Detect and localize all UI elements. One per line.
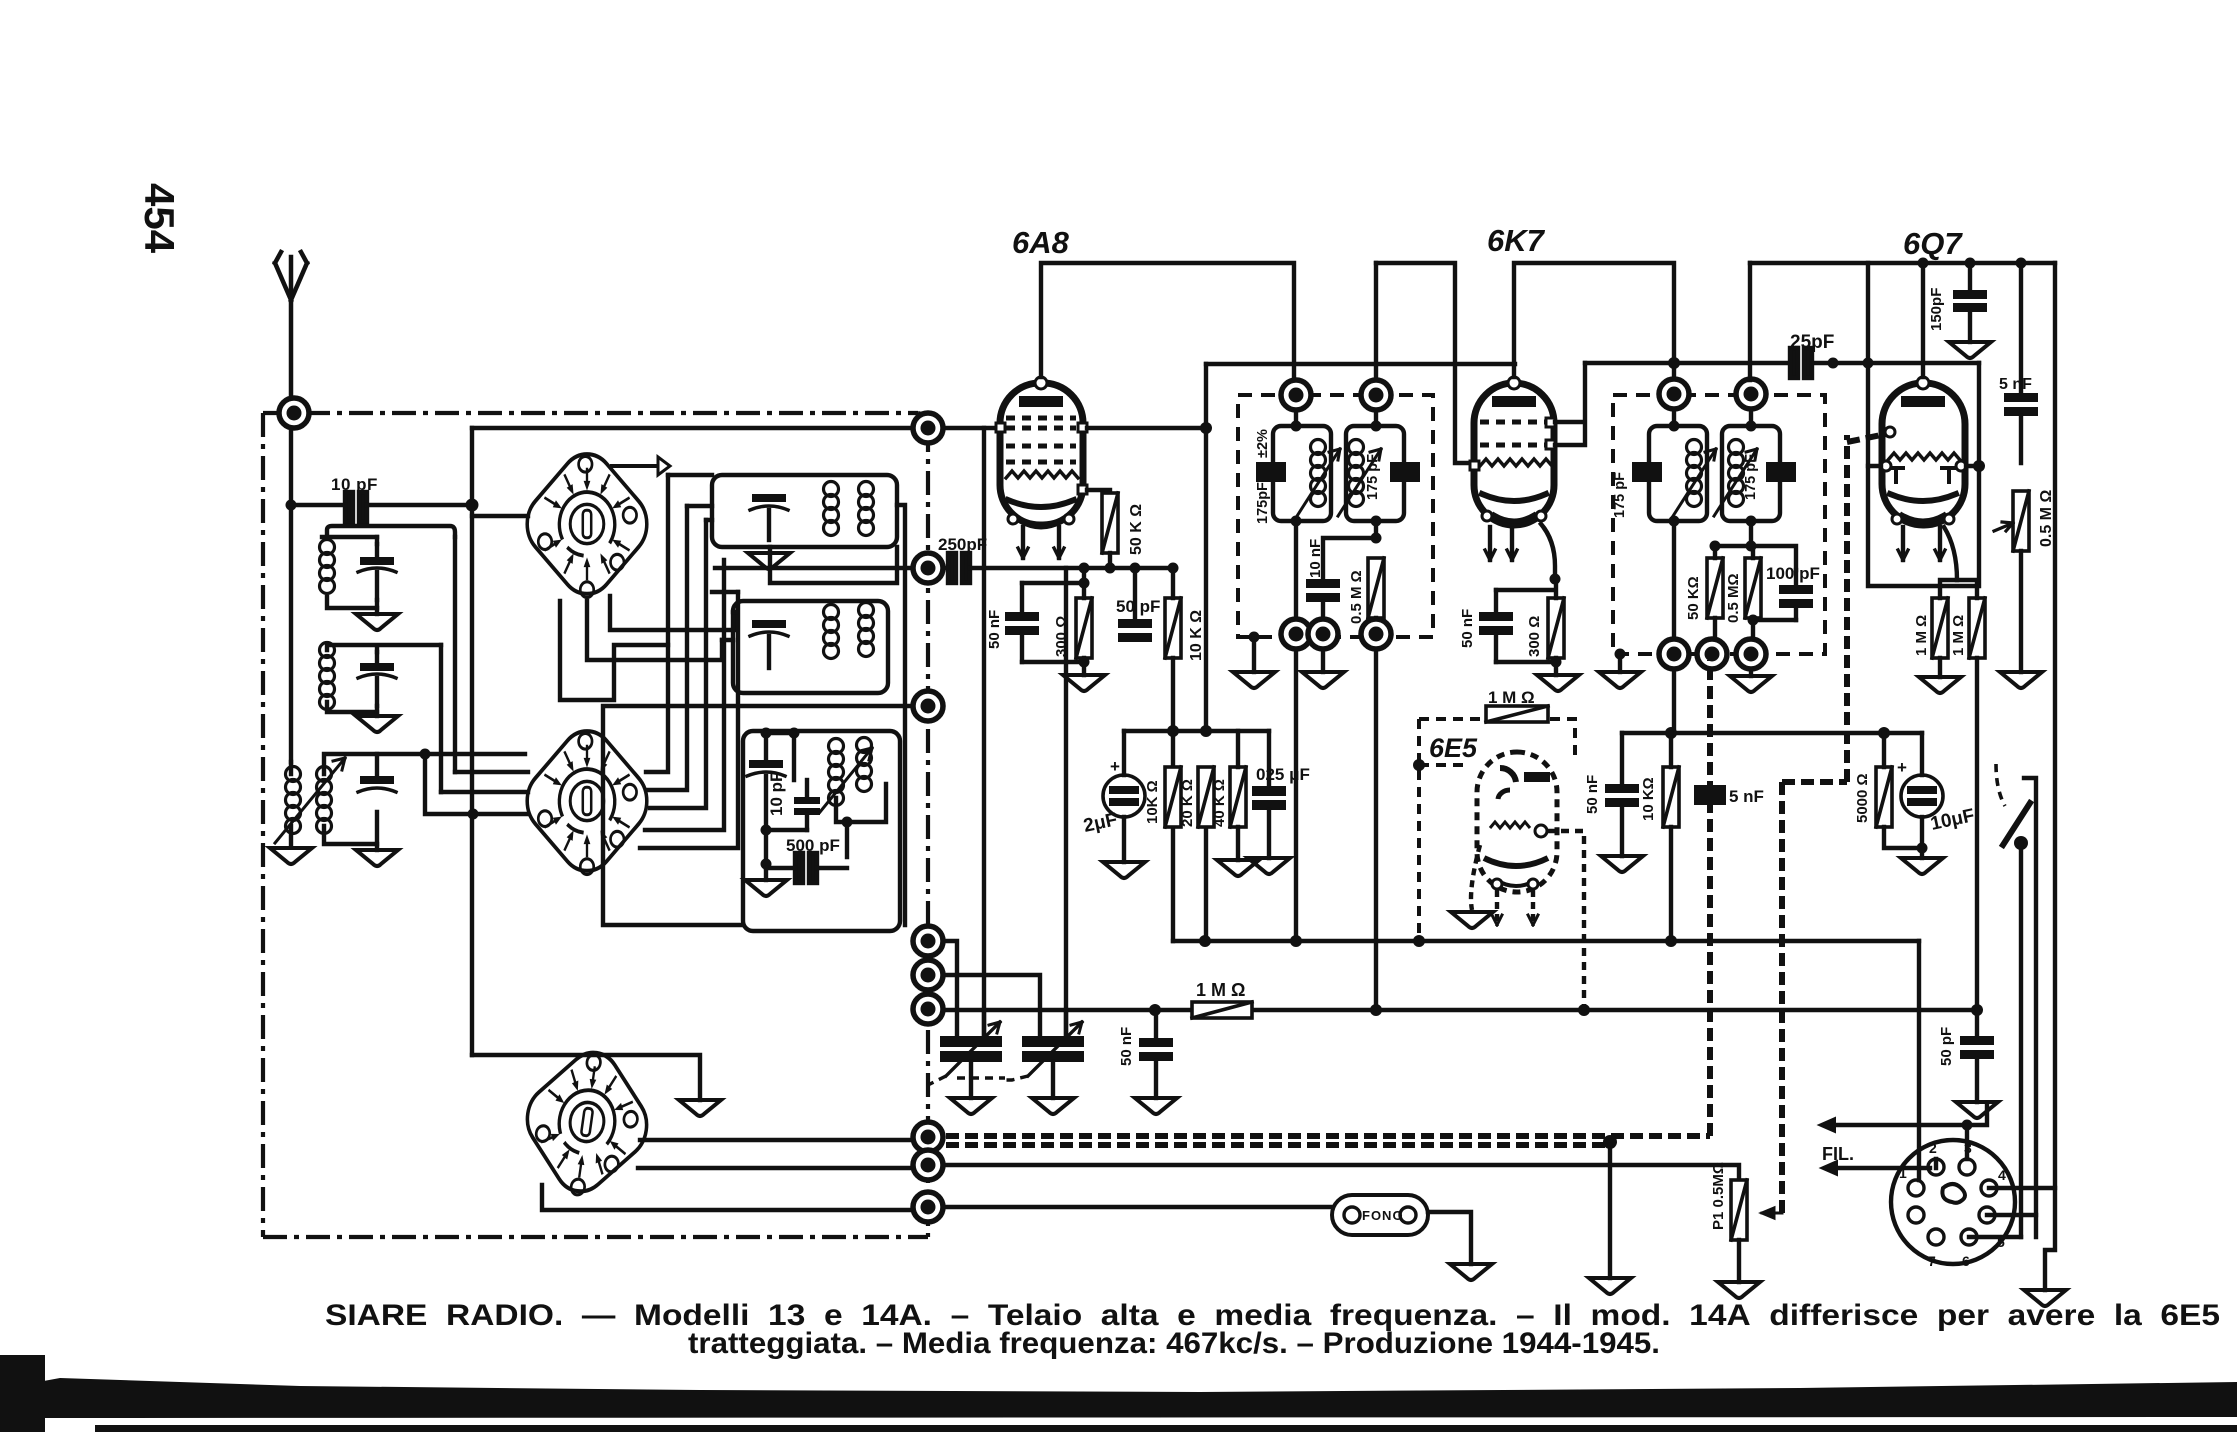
svg-text:025 μF: 025 μF xyxy=(1256,765,1310,784)
trimmer C4 xyxy=(750,494,788,540)
svg-text:25pF: 25pF xyxy=(1790,332,1834,353)
plate supply line y=263 right xyxy=(1750,261,2055,265)
T1 adjust arrow xyxy=(275,758,345,843)
wire osc box right riser xyxy=(897,505,905,925)
tube 6K7 xyxy=(1470,377,1555,560)
svg-text:1 M Ω: 1 M Ω xyxy=(1488,688,1535,707)
svg-text:5 nF: 5 nF xyxy=(1729,787,1764,806)
ground under IF2 right xyxy=(1749,669,1753,676)
wire 10K 6E5 xyxy=(1669,733,1673,941)
ground under C2 xyxy=(375,706,379,716)
wire 250pF to cathode bus xyxy=(944,566,1173,570)
wires IF2 bottom xyxy=(1715,546,1796,654)
wire osc top bus xyxy=(712,592,738,640)
cap 10nF xyxy=(1306,579,1340,634)
antenna terminal xyxy=(279,398,309,428)
IF1 primary cap 175pF xyxy=(1256,462,1286,482)
IF1 tuning arrows xyxy=(1297,449,1381,516)
wire 0.5M to AVC xyxy=(1374,618,1378,1010)
ground 150pF xyxy=(1949,342,1991,358)
wire bundle vertical turns into osc boxes xyxy=(668,475,712,520)
arrow from wafer S1 xyxy=(612,464,658,468)
wires 5000/10uF bottom xyxy=(1884,733,1922,848)
IF1 connections xyxy=(1296,410,1376,634)
long vertical from plate line to socket xyxy=(2053,263,2057,1188)
svg-text:0.5 M Ω: 0.5 M Ω xyxy=(1348,570,1365,624)
wire 50K bottom xyxy=(1108,553,1112,568)
ground 10uF xyxy=(1920,848,1924,858)
resistor 300ohm 6K7 xyxy=(1548,598,1564,658)
heavy dashed shielded bus xyxy=(946,434,1886,1213)
wire 6A8 G2 to 50K xyxy=(1087,490,1110,493)
cap 5nF on shield line xyxy=(1694,785,1726,805)
wire screen line y=363 right xyxy=(1585,361,1979,365)
resistor 10K first xyxy=(1165,598,1181,658)
ground 6K7 cathode xyxy=(1537,675,1579,691)
svg-text:10 nF: 10 nF xyxy=(1307,539,1324,578)
AVC bus y=1010 xyxy=(943,1008,1977,1012)
svg-text:50 pF: 50 pF xyxy=(1938,1027,1955,1066)
IF1 transformer dashed can xyxy=(1238,395,1433,637)
IF2 transformer dashed can xyxy=(1613,395,1825,654)
svg-text:10 pF: 10 pF xyxy=(331,475,378,494)
svg-text:6A8: 6A8 xyxy=(1012,225,1070,260)
svg-text:175 pF: 175 pF xyxy=(1612,472,1628,518)
resistor 1M AVC horizontal xyxy=(1192,1002,1252,1018)
trimmer C5 xyxy=(750,620,788,668)
trimmer C2 xyxy=(358,652,396,706)
svg-text:±2%: ±2% xyxy=(1255,429,1271,458)
svg-text:50 pF: 50 pF xyxy=(1116,597,1160,616)
wire P1 feed xyxy=(943,1165,1739,1180)
coil L7 xyxy=(829,739,844,806)
dashed link padder2 xyxy=(1005,1076,1028,1080)
IF2 secondary coil xyxy=(1729,440,1744,507)
svg-text:175pF: 175pF xyxy=(1255,482,1271,524)
6E5 dashed box xyxy=(1419,719,1575,941)
IF1 secondary coil xyxy=(1349,440,1364,507)
IF2 tuning arrows xyxy=(1673,449,1757,516)
10pF coupling cap (series) xyxy=(345,492,367,522)
trimmer C1 xyxy=(358,544,396,600)
tube 6A8 xyxy=(996,377,1087,558)
svg-text:150pF: 150pF xyxy=(1928,288,1945,331)
svg-text:6E5: 6E5 xyxy=(1429,733,1478,763)
wire 6Q7 diode left pin xyxy=(1868,464,1881,468)
coil L1 antenna xyxy=(320,540,335,594)
FONO jack xyxy=(1332,1195,1428,1235)
svg-text:1 M Ω: 1 M Ω xyxy=(1196,980,1245,1000)
ground 6A8 cathode xyxy=(1063,675,1105,691)
resistor 300ohm 6A8 xyxy=(1076,598,1092,658)
wire top over wafer3 with ground xyxy=(472,1055,700,1100)
power switch xyxy=(1996,764,2036,1237)
IF2 terminal 2 xyxy=(1736,379,1766,409)
P1 wiper arrow xyxy=(1762,1208,1782,1218)
chassis terminals column xyxy=(913,413,943,443)
potentiometer 0.5M xyxy=(2013,491,2029,551)
wire riser x=455 from L1 to wafer2 xyxy=(453,537,457,772)
IF1 bottom terminals xyxy=(1281,619,1311,649)
cap 50nF 6E5 xyxy=(1605,733,1639,856)
svg-text:50 KΩ: 50 KΩ xyxy=(1685,576,1702,620)
IF1 terminal 2 xyxy=(1361,380,1391,410)
wire FONO to ground xyxy=(1428,1212,1471,1264)
IF2 secondary cap 175pF xyxy=(1766,462,1796,482)
wire switch line to socket xyxy=(2019,1215,2023,1237)
IF1 terminal 1 xyxy=(1281,380,1311,410)
svg-text:tratteggiata. – Media frequenz: tratteggiata. – Media frequenza: 467kc/s… xyxy=(688,1327,1660,1360)
svg-text:FONO: FONO xyxy=(1362,1208,1404,1223)
ground padder1 xyxy=(950,1098,992,1114)
wafer switch S1 xyxy=(516,441,659,607)
IF2 primary cap 175pF xyxy=(1632,462,1662,482)
svg-text:10 K Ω: 10 K Ω xyxy=(1188,610,1205,661)
tuning gang wire B xyxy=(1064,568,1068,1036)
ground osc box1 xyxy=(748,553,790,569)
resistor 1M a xyxy=(1932,598,1948,658)
potentiometer P1 xyxy=(1731,1180,1747,1240)
wire 10K chain x=1173 xyxy=(1171,568,1175,941)
wire L1 top xyxy=(327,526,455,608)
wire 6Q7 plate riser xyxy=(1921,263,1925,377)
svg-text:+: + xyxy=(1897,758,1907,777)
resistor 50K IF2 xyxy=(1707,558,1723,618)
socket wires xyxy=(1919,941,2055,1290)
cap 50nF 6A8 cathode xyxy=(1005,583,1039,662)
wire detector box around 6Q7 xyxy=(1868,263,1979,586)
coil L4 xyxy=(859,482,874,536)
wire 6K7 plate to top xyxy=(1514,263,1674,392)
wire IF1 sec top to 6K7 grid xyxy=(1376,263,1474,463)
cap 150pF xyxy=(1953,263,1987,342)
wire 6K7 cathode down xyxy=(1541,524,1555,579)
wire L2 top xyxy=(327,645,441,652)
svg-text:1 M Ω: 1 M Ω xyxy=(1913,615,1930,656)
ground under T1 primary xyxy=(270,848,312,864)
wire from wafer2 down xyxy=(560,596,736,700)
antenna xyxy=(275,252,307,413)
wire grid bus y=428 xyxy=(472,426,998,430)
wire riser x=441 from L2 to wafer2 xyxy=(439,645,443,792)
svg-text:50 K Ω: 50 K Ω xyxy=(1128,504,1145,555)
wire wafer3 to terminal y=1165 xyxy=(638,1166,928,1170)
wire AVC riser x=1206 xyxy=(1204,364,1208,941)
trimmer C6 xyxy=(747,733,785,864)
cap 100pF xyxy=(1779,570,1813,620)
tube 6Q7 xyxy=(1881,377,1966,560)
svg-text:100 pF: 100 pF xyxy=(1766,564,1820,583)
svg-text:300 Ω: 300 Ω xyxy=(1526,616,1543,657)
cap 5nF xyxy=(2004,263,2038,463)
coil L3 xyxy=(824,482,839,536)
cap 50pF xyxy=(1118,568,1152,642)
svg-text:10 pF: 10 pF xyxy=(767,772,786,816)
svg-text:7: 7 xyxy=(1928,1253,1936,1269)
wire y=733 row xyxy=(1622,731,1922,735)
svg-text:250pF: 250pF xyxy=(938,535,987,554)
antenna transformer T1 primary xyxy=(286,767,301,834)
svg-text:50 nF: 50 nF xyxy=(1584,775,1601,814)
wire IF1 pri riser to bus xyxy=(1294,649,1298,941)
wire antenna down xyxy=(289,428,293,762)
electrolytic 2uF xyxy=(1103,731,1145,862)
resistor 0.5M IF2 xyxy=(1745,558,1761,618)
resistor bank 40K xyxy=(1230,767,1246,827)
resistor 10K 6E5 xyxy=(1663,767,1679,827)
ground bottom right xyxy=(2024,1290,2066,1306)
wire from terminal 706 xyxy=(603,706,928,925)
resistor 0.5M IF1 xyxy=(1368,558,1384,618)
padder trimmer 2 xyxy=(943,975,1084,1098)
wafer switch S3 xyxy=(505,1030,669,1215)
FIL arrow 1 xyxy=(1834,1105,1987,1125)
wire 6K7 screen pins loop xyxy=(1555,363,1585,445)
bus wire y=941 xyxy=(1173,939,1919,943)
svg-text:6: 6 xyxy=(1962,1253,1970,1269)
riser wire x=472 xyxy=(470,428,474,1055)
svg-text:4: 4 xyxy=(1998,1167,2006,1183)
wire 6Q7 cathode to 1M pair xyxy=(1944,527,1957,580)
resistor 1M 6E5 xyxy=(1486,706,1548,722)
wire 1M b down xyxy=(1975,658,1979,1010)
wire stubs into wafer1 xyxy=(472,514,528,518)
wire wafer3 bottom to terminal y=1207 xyxy=(542,1185,928,1210)
wire 6A8 grid pin right to AVC riser xyxy=(1087,426,1206,430)
svg-text:0.5 MΩ: 0.5 MΩ xyxy=(1725,573,1742,623)
IF2 connections xyxy=(1674,409,1751,654)
svg-text:5 nF: 5 nF xyxy=(1999,376,2032,393)
IF2 shield ground xyxy=(1615,649,1626,660)
svg-text:5000 Ω: 5000 Ω xyxy=(1854,773,1871,823)
cap 50pF xyxy=(1960,1010,1994,1102)
node junction xyxy=(286,500,297,511)
oscillator box 3 xyxy=(743,728,900,932)
IF2 bottom terminals xyxy=(1659,639,1689,669)
ground 50nF 6E5 xyxy=(1601,856,1643,872)
electrolytic 10uF xyxy=(1897,733,1943,848)
resistor 1M b xyxy=(1969,598,1985,658)
coil L2 xyxy=(320,643,335,710)
wire screen line y=364 left xyxy=(1206,362,1515,366)
svg-text:6Q7: 6Q7 xyxy=(1903,226,1963,261)
svg-text:2: 2 xyxy=(1929,1140,1937,1156)
ground padder2 xyxy=(1032,1098,1074,1114)
node 6A8 avc xyxy=(1200,422,1212,434)
wires 1M pair top xyxy=(1940,580,1977,677)
IF1 primary box xyxy=(1273,426,1331,521)
resistor 5000 ohm xyxy=(1876,767,1892,827)
oscillator box 2 xyxy=(733,601,888,693)
ground 50pF xyxy=(1956,1102,1998,1118)
trimmer C3 xyxy=(358,754,396,792)
IF1 secondary box xyxy=(1346,426,1404,521)
tube socket xyxy=(1891,1140,2015,1269)
svg-text:40 K Ω: 40 K Ω xyxy=(1211,779,1228,827)
cap 50nF 6K7 cathode xyxy=(1479,590,1513,662)
wire IF2 pri riser down to y733 xyxy=(1672,669,1676,733)
svg-text:10K Ω: 10K Ω xyxy=(1144,780,1161,824)
wire 40K to ground xyxy=(1236,731,1240,860)
FIL arrow 2 xyxy=(1836,1166,1930,1170)
svg-text:P1 0.5MΩ: P1 0.5MΩ xyxy=(1710,1162,1727,1230)
dashed link padder1 to chassis xyxy=(957,1076,1005,1079)
svg-text:50 nF: 50 nF xyxy=(1118,1027,1135,1066)
detector cap 50nF xyxy=(1139,1010,1173,1098)
wire antenna to 10pF to riser xyxy=(291,503,345,507)
resistor bank 20K xyxy=(1198,767,1214,827)
coil L6 xyxy=(859,603,874,657)
svg-text:50 nF: 50 nF xyxy=(986,610,1003,649)
wire bundle right of wafer2 to oscillator coils xyxy=(640,475,738,848)
wire T1 connections xyxy=(291,754,525,846)
coil L8 xyxy=(857,738,872,792)
wire 6A8 plate to top xyxy=(1041,263,1294,385)
ground under C3 xyxy=(375,844,379,850)
6E5 grid dashed to AVC xyxy=(1547,831,1584,1010)
svg-text:6K7: 6K7 xyxy=(1487,223,1546,258)
ground det cap xyxy=(1135,1098,1177,1114)
svg-text:1: 1 xyxy=(1899,1165,1907,1181)
wire wafer3 to terminal y=1137 xyxy=(640,1138,928,1142)
svg-text:300 Ω: 300 Ω xyxy=(1053,616,1070,657)
antenna transformer T1 secondary xyxy=(317,767,332,834)
6E5 pins xyxy=(1471,845,1533,925)
wire bundle left of wafer2 xyxy=(425,754,528,814)
ground osc box3 xyxy=(764,868,768,880)
250pF series cap xyxy=(948,553,970,583)
wire FONO from terminal xyxy=(943,1205,1332,1209)
cap 25pF series xyxy=(1790,348,1812,378)
tube 6E5 dashed xyxy=(1477,752,1557,892)
IF2 primary box xyxy=(1649,426,1707,521)
wires inside osc3 xyxy=(766,733,886,857)
svg-text:454: 454 xyxy=(136,183,183,254)
ground from shielded bus xyxy=(1608,1145,1612,1278)
ground under IF1 middle xyxy=(1321,649,1325,672)
pot wiper arrow xyxy=(1994,522,2013,531)
wires 6K7 cathode RC xyxy=(1496,579,1556,675)
padder trimmer 1 xyxy=(940,941,1002,1098)
ground under C1 xyxy=(375,600,379,614)
resistor bank 10K xyxy=(1165,767,1181,827)
bottom scan black band xyxy=(0,1378,2237,1418)
svg-text:20 K Ω: 20 K Ω xyxy=(1179,779,1196,827)
ground 0.25uF xyxy=(1248,858,1290,874)
resistor 50K xyxy=(1102,493,1118,553)
IF2 secondary box xyxy=(1722,426,1780,521)
svg-text:0.5 M Ω: 0.5 M Ω xyxy=(2038,490,2055,547)
cap 0.25uF xyxy=(1252,731,1286,858)
wire avc filter top y=731 xyxy=(1124,729,1269,733)
ground 1M a xyxy=(1919,677,1961,693)
IF1 primary coil xyxy=(1311,440,1326,507)
svg-text:1 M Ω: 1 M Ω xyxy=(1950,615,1967,656)
IF2 primary coil xyxy=(1687,440,1702,507)
IF1 secondary cap 175pF xyxy=(1390,462,1420,482)
wire P1 bottom to ground xyxy=(1737,1240,1741,1282)
tuning gang wire A xyxy=(982,428,986,1036)
svg-text:50 nF: 50 nF xyxy=(1459,609,1476,648)
IF1 shield ground xyxy=(1249,632,1260,643)
chassis dash-dot boundary xyxy=(263,413,928,1237)
IF2 terminal 1 xyxy=(1659,379,1689,409)
coil adjust arrow xyxy=(820,748,872,812)
svg-text:10 KΩ: 10 KΩ xyxy=(1640,777,1657,821)
wire y=568 to terminal 250pF xyxy=(715,566,928,570)
cap 10pF xyxy=(794,780,820,830)
cap 500pF series xyxy=(795,853,817,883)
junction dots osc3 xyxy=(761,728,772,739)
ground 2uF xyxy=(1103,862,1145,878)
wafer switch S2 xyxy=(516,718,659,884)
oscillator box 1 xyxy=(712,475,897,583)
svg-text:+: + xyxy=(1110,757,1120,776)
wires cathode RC xyxy=(1022,568,1084,675)
wire pot to ground xyxy=(2019,551,2023,672)
coil L5 xyxy=(824,605,839,659)
